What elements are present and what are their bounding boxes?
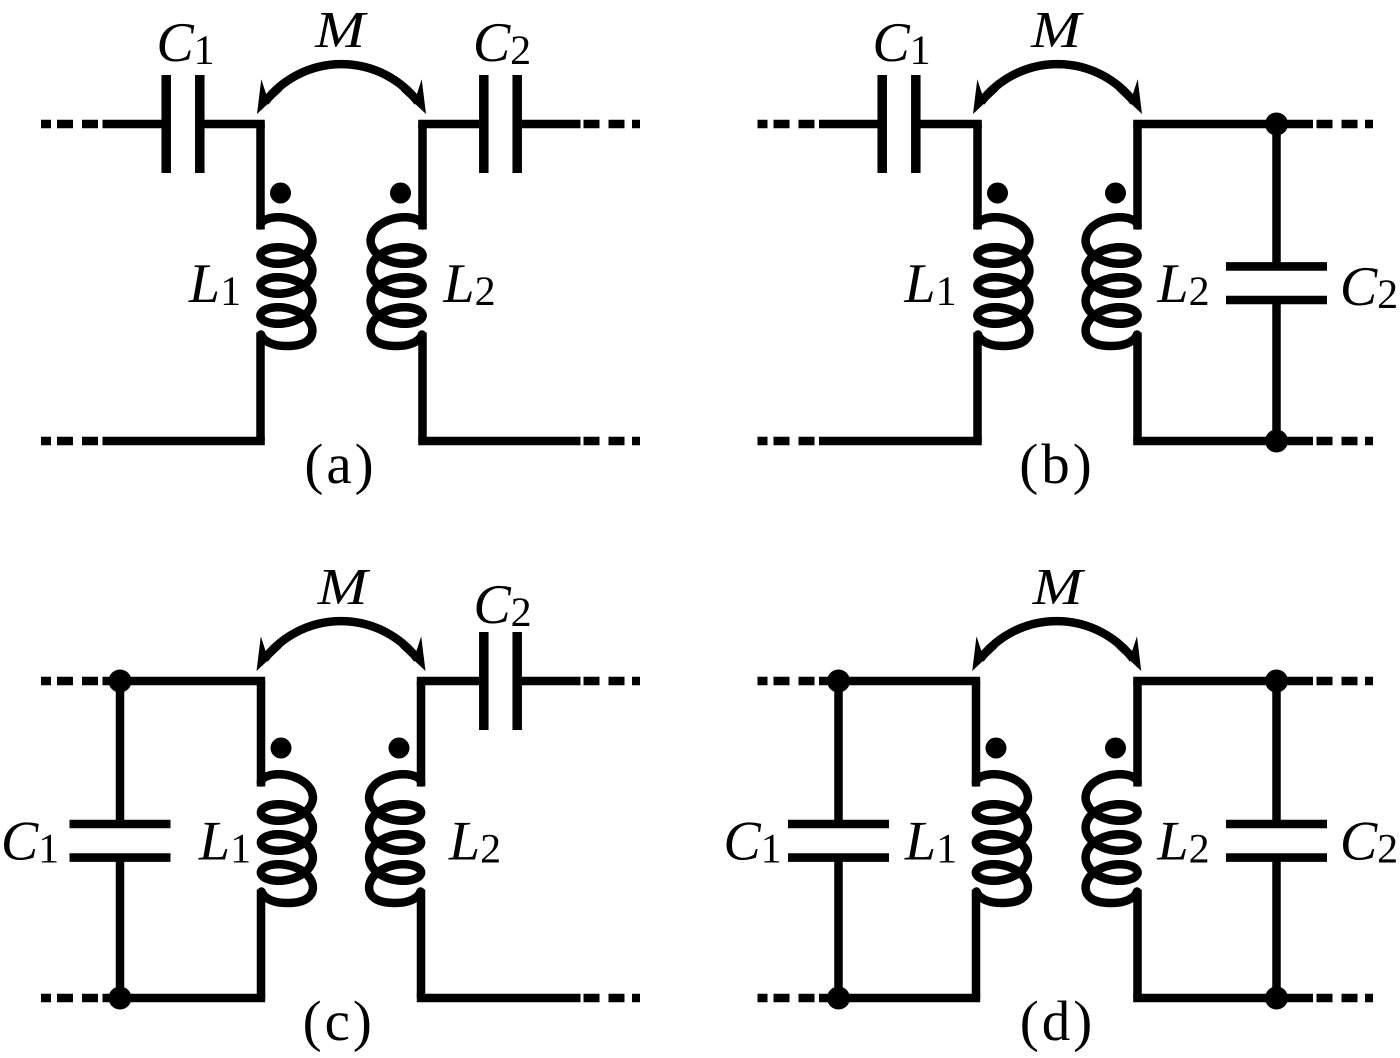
wire: top-left dashed lead — [758, 677, 815, 686]
wire: bottom-left segment — [103, 994, 266, 1003]
wire: L1 lower lead — [972, 890, 981, 999]
wire: bottom-right dashed lead — [584, 994, 641, 1003]
wire: C1 branch upper segment — [834, 681, 843, 822]
wire: C1 branch lower segment — [116, 860, 125, 998]
wire: C2 to right dashed lead — [522, 120, 581, 129]
wire: C2 branch lower segment — [1272, 860, 1281, 998]
capacitor C1 — [70, 824, 171, 858]
wire: top-right dashed lead — [584, 120, 641, 129]
wire: bottom-right segment — [1133, 994, 1313, 1003]
wire: top-right dashed lead — [1317, 120, 1374, 129]
wire: L2 top corner to C2 — [418, 120, 479, 129]
mutual inductance M coupling arrow — [972, 621, 1141, 671]
wire: L2 lower lead — [418, 333, 427, 442]
wire: bottom-left dashed lead — [41, 994, 98, 1003]
capacitor C2 — [1226, 824, 1327, 858]
capacitor C1 — [882, 75, 916, 173]
wire: C2 to right dashed lead — [522, 677, 581, 686]
wire: C1 branch upper segment — [116, 681, 125, 822]
polarity dot of L2 — [1105, 183, 1126, 204]
polarity dot of L1 — [986, 738, 1007, 759]
polarity dot of L2 — [389, 738, 410, 759]
wire: top-left segment through C1 node to L1 corner — [819, 677, 980, 686]
wire: L2 lower lead — [1133, 333, 1142, 442]
wire: top-right dashed lead — [1317, 677, 1374, 686]
inductor L2 — [1086, 217, 1138, 346]
polarity dot of L2 — [390, 183, 411, 204]
junction: C2 bottom node — [1265, 987, 1288, 1010]
wire: top-left segment into C1 — [819, 120, 878, 129]
capacitor C1 — [788, 824, 889, 858]
wire: bottom-right segment — [1133, 437, 1313, 446]
inductor L2 — [369, 774, 421, 903]
svg-text:(b): (b) — [1019, 433, 1095, 496]
wire: L1 upper lead — [973, 124, 982, 230]
wire: bottom-right segment — [418, 437, 580, 446]
wire: top-left dashed lead — [41, 677, 98, 686]
wire: bottom-left dashed lead — [41, 437, 98, 446]
junction: C2 bottom node — [1265, 430, 1288, 453]
inductor L1 — [976, 774, 1028, 903]
wire: L2 upper lead — [417, 681, 426, 787]
svg-text:M: M — [1030, 2, 1084, 60]
wire: bottom-left segment — [103, 437, 265, 446]
svg-text:M: M — [314, 2, 368, 60]
wire: C1 branch lower segment — [834, 860, 843, 998]
svg-text:M: M — [317, 559, 371, 617]
wire: L2 lower lead — [417, 890, 426, 999]
polarity dot of L1 — [271, 738, 292, 759]
svg-text:(a): (a) — [304, 433, 376, 496]
wire: L2 lower lead — [1133, 890, 1142, 999]
capacitor C2 — [1226, 266, 1327, 300]
wire: L1 upper lead — [257, 681, 266, 787]
inductor L1 — [260, 217, 312, 346]
junction: C2 top node — [1265, 670, 1288, 693]
wire: L2 upper lead — [418, 124, 427, 230]
polarity dot of L2 — [1105, 738, 1126, 759]
wire: bottom-right dashed lead — [1317, 437, 1374, 446]
wire: top-left dashed lead — [758, 120, 815, 129]
junction: C1 bottom node — [827, 987, 850, 1010]
wire: L2 top corner to C2 — [417, 677, 479, 686]
mutual inductance M coupling arrow — [973, 64, 1142, 114]
inductor L2 — [371, 217, 423, 346]
polarity dot of L1 — [987, 183, 1008, 204]
junction: C1 top node — [827, 670, 850, 693]
wire: L1 lower lead — [973, 333, 982, 442]
junction: C1 bottom node — [109, 987, 132, 1010]
mutual inductance M coupling arrow — [257, 621, 426, 671]
capacitor C1 — [166, 75, 200, 173]
wire: C2 branch upper segment — [1272, 124, 1281, 264]
junction: C1 top node — [109, 670, 132, 693]
capacitor C2 — [484, 75, 517, 173]
wire: top-right dashed lead — [584, 677, 641, 686]
wire: L1 upper lead — [972, 681, 981, 787]
wire: C1 to L1 top corner — [205, 120, 265, 129]
wire: L1 lower lead — [257, 890, 266, 999]
wire: bottom-left dashed lead — [758, 994, 815, 1003]
wire: top-left segment through C1 node to L1 corner — [103, 677, 266, 686]
inductor L1 — [977, 217, 1029, 346]
mutual inductance M coupling arrow — [257, 64, 426, 114]
wire: L2 upper lead — [1133, 124, 1142, 230]
svg-text:M: M — [1032, 559, 1086, 617]
svg-text:(d): (d) — [1020, 990, 1096, 1053]
inductor L1 — [261, 774, 313, 903]
wire: C1 to L1 top corner — [921, 120, 982, 129]
wire: L2 top corner through C2 node to right lead — [1133, 677, 1313, 686]
inductor L2 — [1086, 774, 1138, 903]
wire: bottom-right dashed lead — [584, 437, 641, 446]
wire: bottom-left segment — [819, 994, 980, 1003]
wire: C2 branch upper segment — [1272, 681, 1281, 822]
wire: top-left dashed lead — [41, 120, 98, 129]
polarity dot of L1 — [270, 183, 291, 204]
wire: top-left segment into C1 — [103, 120, 162, 129]
svg-text:(c): (c) — [303, 990, 375, 1053]
wire: bottom-left segment — [819, 437, 982, 446]
wire: bottom-left dashed lead — [758, 437, 815, 446]
wire: L2 upper lead — [1133, 681, 1142, 787]
junction: C2 top node — [1265, 113, 1288, 136]
capacitor C2 — [484, 632, 517, 730]
wire: L1 upper lead — [256, 124, 265, 230]
wire: L2 top corner through C2 node to right lead — [1133, 120, 1313, 129]
wire: L1 lower lead — [256, 333, 265, 442]
wire: bottom-right dashed lead — [1317, 994, 1374, 1003]
wire: C2 branch lower segment — [1272, 302, 1281, 441]
wire: bottom-right segment — [417, 994, 581, 1003]
